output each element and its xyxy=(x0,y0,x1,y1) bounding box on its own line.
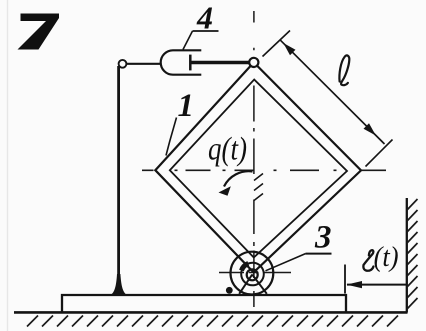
ground line xyxy=(14,311,408,314)
dimension line for l xyxy=(280,40,385,144)
svg-text:3: 3 xyxy=(314,219,332,255)
damper left rod xyxy=(127,63,161,65)
post (vertical rod) xyxy=(117,66,120,294)
post foot xyxy=(109,274,129,295)
ink blot on wheel rim xyxy=(242,264,249,271)
dimension arrowhead bottom xyxy=(364,123,376,135)
s(t) arrowhead xyxy=(347,281,363,288)
rotation arrow arc xyxy=(224,171,253,186)
top hinge circle xyxy=(249,58,258,67)
right wall line xyxy=(406,198,408,313)
dimension extension line top xyxy=(263,31,291,57)
s(t) arrow line xyxy=(347,284,407,286)
damper cylinder 4 xyxy=(161,50,202,74)
dimension arrowhead top xyxy=(283,43,295,55)
platform (base block) xyxy=(62,295,346,312)
damper piston xyxy=(189,55,192,71)
label 3 underline xyxy=(306,253,332,255)
vertical center line xyxy=(253,11,255,307)
label s (script) xyxy=(363,250,373,271)
wheel left leg xyxy=(239,275,252,294)
diamond frame inner xyxy=(170,80,347,258)
svg-text:(t): (t) xyxy=(374,242,399,273)
svg-text:q(t): q(t) xyxy=(208,132,247,168)
wheel middle circle xyxy=(241,263,264,286)
scan artifact left edge line xyxy=(7,0,9,331)
label 1 leader xyxy=(166,118,177,156)
wheel horizontal center line xyxy=(219,272,291,274)
wheel outer circle 3 xyxy=(231,252,274,295)
wall hatching xyxy=(407,199,418,309)
svg-text:1: 1 xyxy=(178,88,195,124)
rotation arrowhead xyxy=(219,186,231,196)
label 4 underline xyxy=(193,30,219,32)
label 3 leader xyxy=(266,254,306,271)
reference hatch marks on center line xyxy=(254,174,263,201)
s(t) extension line xyxy=(344,265,346,294)
ground hatching xyxy=(27,316,398,327)
damper pivot circle xyxy=(119,60,127,68)
label 4 leader xyxy=(183,31,193,50)
label l (script ell) xyxy=(339,55,349,85)
dimension extension line right xyxy=(366,140,393,167)
damper piston rod xyxy=(190,61,250,64)
horizontal center line xyxy=(142,169,386,171)
wheel right leg xyxy=(252,275,267,294)
figure number 7 xyxy=(18,14,60,50)
wheel hub xyxy=(247,269,258,280)
diamond frame outer xyxy=(155,62,361,272)
contact dot xyxy=(226,287,233,294)
